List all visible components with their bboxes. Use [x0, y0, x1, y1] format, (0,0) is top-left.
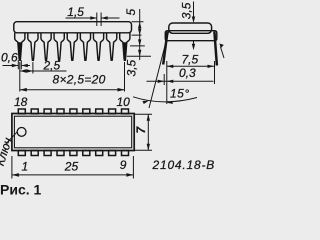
- dimension 3,5 (side view) extension lines: [127, 46, 151, 56]
- pin 9 (side view) with filled tip: [120, 33, 130, 61]
- dimension 2,5 extension lines: [20, 62, 67, 74]
- svg-text:25: 25: [64, 160, 79, 174]
- dimension 7,5 line: [167, 65, 214, 67]
- top view body inner: [14, 116, 131, 148]
- dimension 0,3 line: [147, 80, 214, 82]
- svg-text:Ключ: Ключ: [0, 136, 15, 167]
- dimension 2,5 arrows: [20, 69, 33, 72]
- pin 2 (side view): [28, 33, 38, 61]
- dimension 7 line: [147, 114, 149, 150]
- top view top pin row: [18, 109, 128, 114]
- pin 1 (side view) with filled tip: [15, 33, 25, 61]
- pin 7 (side view): [93, 33, 103, 61]
- dimension 7,5 extension lines: [167, 61, 215, 104]
- pin 5 (side view): [67, 33, 77, 61]
- dimension 5 arrows: [138, 22, 141, 35]
- svg-text:0,3: 0,3: [179, 66, 196, 80]
- end view body bottom: [165, 31, 217, 41]
- dimension 25 arrows: [12, 173, 133, 177]
- angle 15 arrows: [142, 101, 173, 104]
- dimension 7 arrows: [147, 114, 150, 150]
- dimension 1,5 line: [66, 17, 120, 19]
- leader to right pin: [221, 47, 225, 58]
- svg-text:3,5: 3,5: [180, 2, 194, 19]
- pin 3 (side view): [41, 33, 51, 61]
- svg-text:10: 10: [117, 95, 131, 109]
- dimension 8x2,5=20 arrows: [20, 88, 125, 92]
- dimension 0,3 extension line: [147, 74, 214, 85]
- angle 15 arc: [133, 97, 197, 102]
- dimension 7 extension lines: [135, 114, 153, 150]
- end view body top: [169, 23, 212, 33]
- dimension 8x2,5=20 extension lines: [20, 62, 125, 92]
- svg-text:7: 7: [134, 126, 148, 134]
- dimension 1,5 extension lines: [66, 13, 120, 27]
- svg-text:2,5: 2,5: [43, 58, 61, 72]
- dimension 25 extension lines: [12, 156, 133, 179]
- key leader line: [6, 132, 17, 144]
- dimension 5 extension lines (right of side view): [132, 9, 144, 60]
- angle 15 slanted line: [133, 30, 197, 108]
- svg-text:7,5: 7,5: [182, 53, 199, 67]
- dimension 1,5 arrows: [90, 16, 107, 19]
- pin 4 (side view): [54, 33, 64, 61]
- dimension 0,6 line: [3, 65, 31, 67]
- svg-text:0,6: 0,6: [1, 51, 18, 65]
- dimension 3,5 (end view) line: [193, 2, 195, 45]
- svg-text:2104.18-В: 2104.18-В: [152, 158, 216, 172]
- pin 6 (side view): [80, 33, 90, 61]
- svg-text:Рис. 1: Рис. 1: [0, 182, 42, 198]
- svg-text:5: 5: [124, 9, 138, 16]
- dimension 0,3 arrows: [158, 80, 174, 83]
- end view left pin: [163, 32, 167, 65]
- dimension 7,5 arrows: [167, 65, 214, 68]
- dimension 3,5 arrows: [138, 39, 141, 56]
- key mark circle: [17, 127, 26, 136]
- dimension 25 line: [12, 174, 133, 176]
- svg-text:3,5: 3,5: [124, 59, 138, 76]
- dimension 0,6 extension lines: [3, 60, 31, 69]
- dimension 0,6 arrows: [12, 64, 28, 67]
- svg-text:8×2,5=20: 8×2,5=20: [53, 72, 106, 86]
- dimension 5 line: [139, 9, 141, 60]
- svg-text:1: 1: [22, 159, 29, 173]
- dimension 8x2,5=20 line: [20, 89, 125, 91]
- end view right pin: [214, 32, 217, 66]
- dimension 2,5 line: [20, 70, 67, 72]
- top view body outer: [12, 114, 134, 151]
- pin 8 (side view): [107, 33, 117, 61]
- dimension 3,5 end view arrows: [192, 17, 195, 51]
- svg-text:9: 9: [120, 158, 127, 172]
- svg-text:1,5: 1,5: [67, 5, 84, 19]
- side view body: [14, 22, 132, 33]
- top view bottom pin row: [18, 151, 128, 156]
- svg-text:15°: 15°: [170, 87, 190, 101]
- svg-text:18: 18: [14, 95, 28, 109]
